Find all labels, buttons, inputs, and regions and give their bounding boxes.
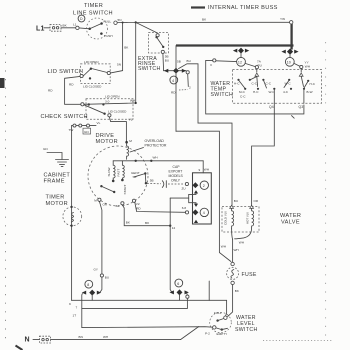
motor internal top wire WH: [113, 160, 203, 162]
motor winding fast: [122, 161, 124, 180]
wire BU from contact 4 to cold water valve: [179, 64, 233, 205]
svg-text:N: N: [25, 337, 30, 344]
svg-text:FUSE: FUSE: [242, 272, 257, 278]
svg-text:CABINET: CABINET: [44, 172, 71, 178]
svg-text:BN: BN: [79, 335, 83, 339]
svg-text:FAST: FAST: [117, 169, 121, 177]
svg-text:H-C: H-C: [310, 82, 316, 86]
temp switch contact group 2: [249, 79, 251, 81]
svg-text:9: 9: [69, 302, 71, 306]
timer motor winding squiggle: [71, 213, 73, 223]
svg-text:2: 2: [189, 86, 191, 90]
svg-text:7: 7: [76, 306, 78, 310]
svg-text:WATER: WATER: [280, 213, 301, 219]
hot valve triangle: [250, 205, 254, 208]
lid switch common terminal: [80, 74, 83, 77]
svg-text:CHECK SWITCH: CHECK SWITCH: [41, 114, 88, 120]
connector GN boxed label: [83, 128, 91, 134]
timer contact circled 12: [237, 57, 246, 66]
check switch common terminal: [81, 103, 84, 106]
overload protector coil: [127, 143, 129, 159]
svg-text:HOT VLV: HOT VLV: [245, 212, 249, 224]
water temp switch dashed box: [233, 70, 322, 104]
svg-text:D: D: [80, 17, 83, 21]
page edge dotted line left: [5, 36, 7, 345]
ground symbol: [56, 159, 69, 161]
stray tick: [292, 116, 295, 119]
hot valve coil: [252, 208, 254, 227]
wire from terminal down with RD stub: [187, 74, 190, 87]
cold valve coil: [232, 208, 234, 228]
wire VL check switch to drive motor: [109, 117, 126, 142]
timer contact 4 node with arrows: [164, 70, 186, 72]
svg-text:WH: WH: [234, 248, 239, 252]
svg-text:LID OPEN: LID OPEN: [105, 95, 119, 99]
timer contact circled 6: [175, 279, 183, 287]
svg-text:8: 8: [87, 283, 89, 287]
svg-text:WH: WH: [221, 245, 226, 249]
extra rinse contacts: [156, 34, 159, 37]
L1 noise filter component: [50, 24, 61, 31]
wire V2 RD to box: [135, 202, 186, 212]
svg-text:PROTECTOR: PROTECTOR: [145, 144, 167, 148]
timer terminal box: [193, 173, 212, 224]
svg-text:VL: VL: [129, 117, 133, 121]
wire BK motor 32 to riser: [122, 205, 170, 226]
wire 9 WH from motor to box top: [202, 161, 204, 173]
svg-text:3.0: 3.0: [105, 99, 110, 103]
timer internal buss vertical through contact 4: [175, 46, 177, 132]
svg-text:SWITCH: SWITCH: [235, 327, 258, 333]
water level switch dashed boundary: [210, 312, 232, 332]
wire Q4 to hot water valve: [252, 103, 275, 206]
scan mark left edge: [0, 78, 5, 88]
wire drop from line switch to lid switch: [111, 23, 123, 73]
lid switch dashed box: [81, 64, 111, 84]
line switch terminal circle: [76, 26, 79, 29]
terminal circle before diamond: [185, 211, 188, 214]
svg-text:FRAME: FRAME: [44, 179, 65, 185]
svg-text:M-C: M-C: [239, 90, 246, 94]
wire into temp switch triangle: [256, 69, 258, 72]
contact 6 riser vertical: [170, 198, 172, 292]
line switch dashed boundary circle: [87, 18, 108, 39]
internal timer buss top wire: [117, 21, 289, 23]
svg-text:VL: VL: [97, 121, 101, 125]
legend: internal timer buss thick sample line: [191, 6, 205, 8]
motor start lever: [100, 185, 102, 187]
svg-text:5N: 5N: [117, 63, 121, 67]
svg-text:OVERLOAD: OVERLOAD: [145, 139, 165, 143]
svg-text:9: 9: [199, 168, 201, 172]
svg-text:MOTOR: MOTOR: [46, 201, 68, 207]
temp switch contact group 5: [307, 80, 309, 82]
wire valves to fuse: [232, 239, 234, 262]
svg-text:OR: OR: [254, 199, 259, 203]
svg-text:BU: BU: [165, 59, 169, 63]
jumper step wire: [189, 194, 196, 204]
svg-text:FULL: FULL: [214, 311, 222, 315]
lid switch wire open contact to output: [92, 69, 107, 73]
wire GY motor M down to contact 8: [99, 201, 102, 273]
svg-text:SLOW: SLOW: [107, 167, 111, 176]
svg-text:M: M: [129, 139, 132, 143]
timer contact 10 node: [281, 50, 285, 54]
svg-text:6.8: 6.8: [182, 206, 187, 210]
svg-text:4-C: 4-C: [283, 90, 289, 94]
wire down from buss junction: [135, 22, 137, 103]
svg-text:WH: WH: [103, 335, 108, 339]
N noise filter component: [40, 336, 51, 343]
svg-text:YW: YW: [280, 17, 285, 21]
drive motor dashed circle: [88, 146, 148, 206]
valve output merge: [232, 229, 233, 240]
svg-text:Q3: Q3: [299, 105, 304, 109]
timer contact 12 node: [233, 49, 237, 53]
timer contact circled 4: [170, 76, 178, 84]
lid switch lever to open contact: [83, 69, 91, 76]
water valve dashed box: [222, 207, 259, 233]
svg-text:12: 12: [172, 226, 176, 230]
bottom bus line 3: [82, 326, 213, 329]
page edge dotted line right: [325, 42, 327, 336]
N wire: [33, 339, 40, 341]
bottom bus line 1: [72, 300, 227, 316]
motor terminal M OR: [98, 198, 101, 201]
contact 12 terminal 3: [213, 59, 216, 62]
svg-text:5N: 5N: [118, 18, 122, 22]
svg-text:TIMER: TIMER: [46, 195, 65, 201]
top wire end terminal: [290, 21, 293, 24]
svg-text:BU: BU: [234, 199, 238, 203]
svg-text:C-C: C-C: [240, 95, 246, 99]
check switch dashed box: [86, 99, 133, 119]
svg-text:EMPTY: EMPTY: [217, 332, 228, 336]
neutral diagonal up to line 3: [181, 327, 199, 340]
wire fuse to water level switch: [228, 285, 233, 317]
svg-text:BU: BU: [187, 59, 191, 63]
water level switch contacts: [224, 316, 227, 319]
svg-text:TIMER: TIMER: [84, 3, 103, 9]
temp switch internal drop wires: [273, 90, 275, 103]
contact 8 left leg down: [81, 294, 84, 328]
motor terminal M dot: [125, 141, 128, 144]
svg-text:DRIVE: DRIVE: [96, 133, 115, 139]
page edge dotted line bottom right: [263, 340, 333, 342]
timer motor dashed circle: [63, 207, 82, 226]
svg-text:C-C: C-C: [266, 81, 272, 85]
svg-text:LID OPEN: LID OPEN: [84, 60, 98, 64]
timer contact circled 4 lower: [200, 208, 208, 216]
svg-text:EXPORT: EXPORT: [169, 170, 183, 174]
svg-text:B-W: B-W: [307, 90, 313, 94]
terminal diamond into circled 4: [192, 209, 198, 215]
line switch PUSH contact: [100, 32, 103, 35]
svg-text:5B: 5B: [150, 179, 154, 183]
svg-text:5B: 5B: [177, 59, 181, 63]
svg-text:1T: 1T: [73, 314, 77, 318]
svg-text:PUSH: PUSH: [104, 34, 113, 38]
svg-text:BU: BU: [105, 276, 109, 280]
svg-text:L1: L1: [73, 22, 77, 26]
svg-text:VALVE: VALVE: [281, 220, 300, 226]
svg-text:WH: WH: [130, 98, 135, 102]
contact 4 right terminal: [186, 71, 189, 74]
terminal diamond into circled 2: [192, 182, 198, 188]
timer contact circled 8: [85, 280, 93, 288]
motor terminal V2 RD: [132, 199, 135, 202]
svg-text:4: 4: [203, 211, 205, 215]
svg-text:WH: WH: [239, 241, 244, 245]
svg-text:6: 6: [177, 282, 179, 286]
svg-text:RD: RD: [48, 89, 53, 93]
lid switch closed contact: [89, 77, 91, 79]
temp switch internal feed wires: [256, 76, 259, 86]
svg-text:SWITCH: SWITCH: [211, 92, 234, 98]
wire from contact 6 riser into jumper: [170, 197, 189, 199]
motor terminal 32: [121, 202, 124, 205]
scan mark bottom left corner: [16, 346, 23, 350]
svg-text:WH: WH: [204, 167, 209, 171]
svg-text:SWITCH: SWITCH: [138, 66, 161, 72]
terminal triangle up: [194, 190, 198, 193]
bottom bus line 2: [82, 298, 188, 308]
svg-text:P-2: P-2: [205, 332, 210, 336]
wire diagonal into extra rinse switch: [136, 22, 158, 33]
thick buss vertical from top wire: [290, 24, 292, 50]
svg-text:GN: GN: [84, 130, 89, 134]
svg-text:10: 10: [287, 61, 291, 65]
capacitor dashed wire CAP EXPORT MODELS ONLY: [145, 182, 147, 184]
svg-text:H-C: H-C: [234, 81, 240, 85]
lid switch output terminal: [107, 71, 110, 74]
connector terminals row TW GN: [72, 125, 96, 127]
wire A from contact 4 down to fuse line: [176, 131, 231, 261]
check switch lever to closed contact: [84, 105, 105, 114]
internal timer buss thick line: [176, 44, 294, 46]
svg-text:3: 3: [210, 63, 212, 67]
cabinet ground wire: [47, 153, 62, 160]
check switch wire WH to motor drop: [84, 103, 136, 104]
wire from extra rinse down: [162, 54, 165, 71]
svg-text:WH: WH: [305, 65, 310, 69]
svg-text:12: 12: [238, 61, 242, 65]
svg-text:W-C: W-C: [285, 81, 292, 85]
svg-text:LID CLOSED: LID CLOSED: [108, 110, 127, 114]
svg-text:CAP: CAP: [173, 165, 181, 169]
bottom triangle up: [194, 220, 198, 223]
svg-text:INTERNAL TIMER BUSS: INTERNAL TIMER BUSS: [208, 5, 278, 11]
cold valve triangle: [230, 205, 234, 208]
svg-text:L1: L1: [36, 26, 45, 33]
motor winding slow: [113, 161, 115, 181]
svg-text:GY: GY: [94, 268, 98, 272]
wire terminal 3 to temp switch Q3: [206, 60, 304, 114]
svg-text:ONLY: ONLY: [171, 179, 181, 183]
temp switch contact group 4: [288, 79, 290, 81]
svg-text:32: 32: [116, 204, 120, 208]
svg-text:ZU: ZU: [182, 187, 186, 191]
svg-text:START: START: [123, 185, 127, 195]
svg-text:Q4: Q4: [269, 105, 274, 109]
EXTRA RINSE SWITCH dashed box: [149, 33, 169, 53]
svg-text:GN: GN: [43, 147, 48, 151]
svg-text:RD: RD: [136, 207, 141, 211]
terminal triangle down: [194, 204, 198, 207]
svg-text:MOTOR: MOTOR: [96, 139, 118, 145]
svg-text:OR: OR: [103, 202, 108, 206]
svg-text:RD: RD: [171, 91, 176, 95]
svg-text:2: 2: [203, 184, 205, 188]
timer line switch contact D: [78, 15, 85, 22]
stub wire above bottom bus: [208, 281, 210, 300]
temp switch contact group 3: [262, 79, 264, 81]
pointer line: [130, 148, 144, 153]
junction on buss wire to extra rinse: [135, 21, 137, 23]
contact 6 node arrows and diamond: [170, 290, 174, 294]
timer contact circled 10: [285, 57, 294, 66]
svg-text:M: M: [94, 199, 97, 203]
svg-text:4: 4: [172, 79, 174, 83]
svg-text:WH: WH: [153, 155, 158, 159]
wire RD lid switch down to check switch: [65, 76, 81, 104]
svg-text:H-C: H-C: [253, 90, 259, 94]
neutral wire to water level switch: [51, 339, 181, 341]
svg-text:MODELS: MODELS: [169, 174, 184, 178]
svg-text:COLD VLV: COLD VLV: [224, 211, 228, 225]
wire start cap: [144, 175, 147, 183]
svg-text:V2: V2: [136, 202, 140, 206]
long left vertical wire to bottom bus: [71, 126, 73, 301]
fuse: [231, 262, 234, 265]
svg-text:RD: RD: [69, 83, 74, 87]
check switch open contact wire: [88, 103, 90, 105]
svg-text:TW: TW: [69, 128, 74, 132]
svg-text:LID SWITCH: LID SWITCH: [48, 69, 84, 75]
line switch lever: [88, 28, 91, 31]
contact 8 node arrows and diamond: [82, 291, 86, 295]
line switch output terminal: [114, 21, 117, 24]
wire BK to line switch: [61, 27, 76, 29]
wire from L1: [44, 27, 50, 29]
svg-text:LID CLOSED: LID CLOSED: [83, 85, 102, 89]
timer contact circled 2: [200, 181, 208, 189]
temp switch contact group 1: [237, 79, 239, 81]
